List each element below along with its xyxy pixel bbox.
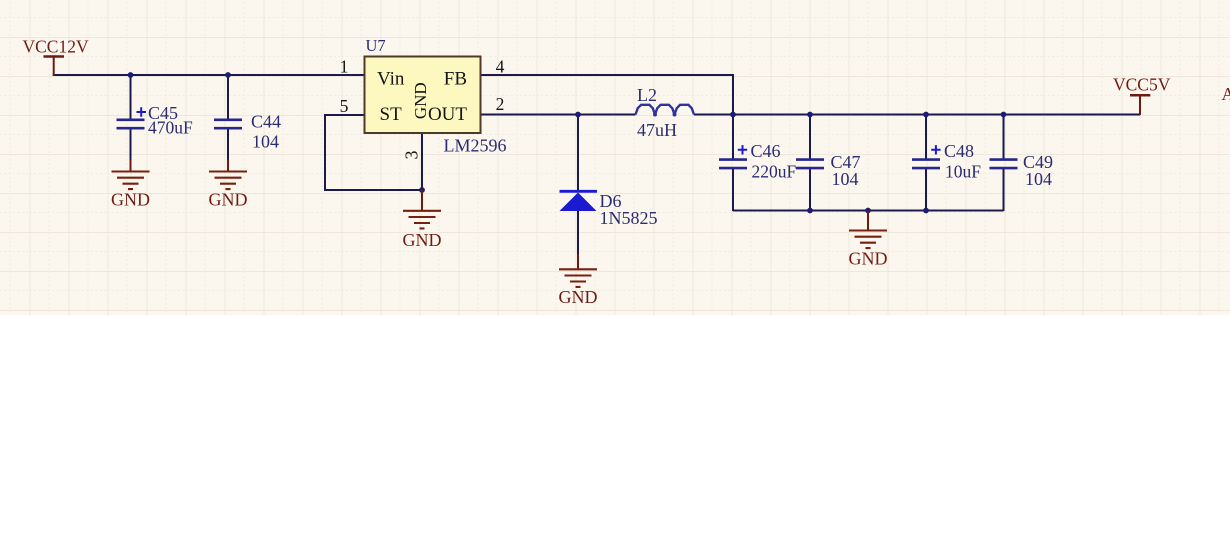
svg-text:VCC5V: VCC5V bbox=[1113, 75, 1171, 95]
svg-text:GND: GND bbox=[209, 189, 248, 209]
svg-text:OUT: OUT bbox=[428, 104, 467, 125]
svg-text:47uH: 47uH bbox=[637, 120, 677, 140]
svg-text:Vin: Vin bbox=[377, 69, 405, 90]
svg-text:C48: C48 bbox=[944, 141, 974, 161]
svg-text:GND: GND bbox=[559, 287, 598, 307]
svg-text:GND: GND bbox=[411, 82, 430, 119]
svg-text:GND: GND bbox=[111, 189, 150, 209]
svg-text:470uF: 470uF bbox=[148, 118, 193, 138]
svg-text:1: 1 bbox=[340, 57, 349, 77]
svg-text:1N5825: 1N5825 bbox=[600, 208, 658, 228]
svg-text:2: 2 bbox=[496, 94, 505, 114]
svg-text:104: 104 bbox=[252, 132, 279, 152]
svg-text:FB: FB bbox=[444, 69, 467, 90]
svg-text:4: 4 bbox=[496, 57, 505, 77]
svg-text:LM2596: LM2596 bbox=[444, 136, 507, 156]
svg-text:220uF: 220uF bbox=[752, 162, 797, 182]
svg-text:U7: U7 bbox=[366, 36, 386, 55]
svg-text:GND: GND bbox=[403, 230, 442, 250]
svg-text:10uF: 10uF bbox=[945, 162, 981, 182]
svg-text:A: A bbox=[1222, 84, 1230, 104]
svg-text:L2: L2 bbox=[637, 85, 657, 105]
svg-text:3: 3 bbox=[402, 151, 422, 160]
svg-text:C46: C46 bbox=[751, 141, 781, 161]
svg-text:ST: ST bbox=[380, 104, 403, 125]
svg-text:VCC12V: VCC12V bbox=[23, 37, 89, 57]
svg-text:GND: GND bbox=[849, 249, 888, 269]
svg-text:104: 104 bbox=[1025, 169, 1052, 189]
svg-text:104: 104 bbox=[832, 169, 859, 189]
svg-text:C44: C44 bbox=[251, 112, 281, 132]
svg-text:5: 5 bbox=[340, 96, 349, 116]
